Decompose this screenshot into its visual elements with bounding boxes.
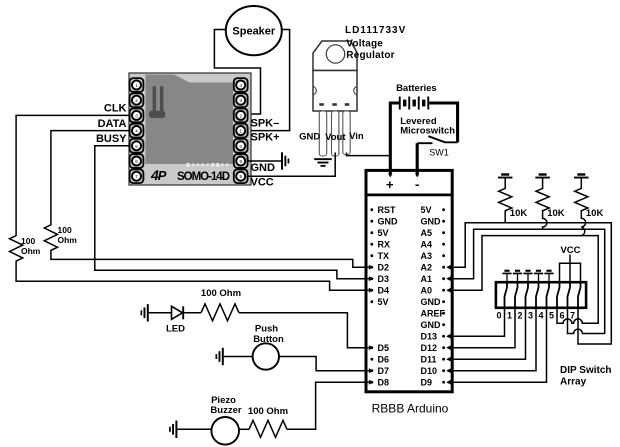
svg-text:Ohm: Ohm xyxy=(58,235,78,245)
wire BUSY net: module pin5 to Arduino D3 xyxy=(95,146,369,279)
svg-text:D8: D8 xyxy=(378,378,390,388)
module solder pads xyxy=(187,163,229,167)
svg-text:1: 1 xyxy=(507,311,512,321)
speaker SP1 xyxy=(226,6,282,55)
svg-text:Voltage: Voltage xyxy=(346,39,383,50)
voltage regulator U2 LD1117 tab xyxy=(313,41,357,71)
module pin 14 right xyxy=(234,78,248,92)
arrowhead at D5 xyxy=(369,345,374,350)
svg-text:BUSY: BUSY xyxy=(96,133,127,145)
regulator side notches xyxy=(313,87,357,95)
svg-text:D10: D10 xyxy=(421,366,438,376)
module pin 10 right xyxy=(234,139,248,153)
svg-text:3: 3 xyxy=(528,311,533,321)
wire battery right to switch xyxy=(429,103,457,142)
arrowhead at D10 xyxy=(446,368,451,373)
piezo buzzer LS1 xyxy=(211,417,239,445)
svg-text:RX: RX xyxy=(378,240,391,250)
module pin 6 left xyxy=(130,154,144,168)
module connector symbol xyxy=(149,86,165,118)
svg-text:A0: A0 xyxy=(421,286,433,296)
svg-text:SOMO-14D: SOMO-14D xyxy=(177,171,230,183)
svg-text:D4: D4 xyxy=(378,286,390,296)
wire D3 stub xyxy=(367,278,369,280)
resistor R6 100 Ohm xyxy=(201,304,239,321)
svg-text:-: - xyxy=(415,177,419,192)
wire resistor R7 to Arduino D8 xyxy=(287,382,369,429)
resistor R5 10K with hops over A2 and A1 nets xyxy=(575,179,588,236)
svg-text:D12: D12 xyxy=(421,343,438,353)
svg-text:100 Ohm: 100 Ohm xyxy=(201,288,241,299)
module pin 2 left xyxy=(130,93,144,107)
wire module GND to ground xyxy=(248,160,281,162)
DIP switch lever 1 xyxy=(515,281,518,308)
ground (above resistor R5) xyxy=(574,173,589,178)
module pin 13 right xyxy=(234,93,248,107)
svg-text:GND: GND xyxy=(299,132,320,143)
svg-text:4P: 4P xyxy=(150,167,167,183)
svg-text:GND: GND xyxy=(421,217,442,227)
regulator pin marks xyxy=(319,103,349,106)
arrowhead at D13 xyxy=(446,334,451,339)
Arduino U3 RBBB board outline xyxy=(366,170,452,391)
battery BT1 cells xyxy=(399,97,429,110)
wire VCC fork to DIP switches 5 6 7 xyxy=(560,255,581,282)
module pin 1 left xyxy=(130,78,144,92)
wire D2 stub xyxy=(367,266,369,268)
DIP switch lever 4 xyxy=(547,281,550,308)
ground (push button) xyxy=(216,348,224,365)
wire battery left to Arduino + xyxy=(390,103,400,176)
wire net D13 to DIP switch 0 xyxy=(454,308,505,336)
DIP switch lever 0 xyxy=(505,281,508,308)
regulator leg pin1 GND xyxy=(319,111,326,156)
wire net D12 to DIP switch 1 xyxy=(454,308,515,348)
wire resistor R6 to Arduino D5 xyxy=(239,313,369,348)
svg-text:5V: 5V xyxy=(421,205,432,215)
svg-text:A3: A3 xyxy=(421,251,433,261)
svg-text:Buzzer: Buzzer xyxy=(210,405,241,416)
module pin 4 left xyxy=(130,124,144,138)
svg-text:Regulator: Regulator xyxy=(346,50,394,61)
svg-text:D5: D5 xyxy=(378,343,390,353)
Arduino left pin dots xyxy=(370,208,373,383)
svg-text:2: 2 xyxy=(517,311,522,321)
svg-text:5V: 5V xyxy=(378,297,389,307)
wire switch to Arduino - xyxy=(416,143,419,175)
wire + stub into header xyxy=(389,170,392,174)
svg-text:AREF: AREF xyxy=(421,309,446,319)
svg-text:7: 7 xyxy=(570,311,575,321)
wire ground to push button xyxy=(224,356,253,358)
module 4D logo xyxy=(150,167,167,183)
svg-text:A2: A2 xyxy=(421,263,433,273)
svg-text:CLK: CLK xyxy=(104,103,127,115)
svg-text:Push: Push xyxy=(255,324,278,335)
arrowhead at A2 xyxy=(446,265,451,270)
module U1 SOMO-14D board xyxy=(129,73,251,185)
wire net D11 to DIP switch 2 xyxy=(454,308,526,359)
svg-text:Array: Array xyxy=(560,377,587,388)
module pin 8 right VCC xyxy=(234,169,248,183)
DIP switch lever 7 xyxy=(578,281,581,308)
svg-text:D3: D3 xyxy=(378,274,390,284)
svg-text:TX: TX xyxy=(378,251,390,261)
svg-text:VCC: VCC xyxy=(560,245,580,256)
svg-text:SPK–: SPK– xyxy=(251,118,280,130)
Arduino right pin labels xyxy=(421,205,446,388)
ground (above resistor R3) xyxy=(498,173,513,178)
ground (above DIP switch 1) xyxy=(517,274,519,282)
ground (regulator) xyxy=(314,158,332,167)
wire LED to resistor R6 xyxy=(183,312,201,314)
ground (above resistor R4) xyxy=(535,173,550,178)
wire D4 stub xyxy=(367,289,369,291)
ground (above DIP switch 4) xyxy=(548,274,550,282)
Arduino header divider xyxy=(366,193,452,196)
svg-text:GND: GND xyxy=(378,217,399,227)
svg-text:GND: GND xyxy=(421,297,442,307)
ground (above DIP switch 0) xyxy=(506,274,508,282)
svg-text:D2: D2 xyxy=(378,263,390,273)
svg-text:4: 4 xyxy=(538,311,543,321)
DIP switch array S1 body xyxy=(496,282,586,308)
wire - stub into header xyxy=(416,170,419,174)
svg-text:10K: 10K xyxy=(547,208,565,219)
wire Vout to module VCC xyxy=(248,153,336,177)
svg-text:VCC: VCC xyxy=(251,177,274,189)
wire push button to Arduino D7 xyxy=(279,357,369,371)
svg-text:A5: A5 xyxy=(421,228,433,238)
DIP switch lever 3 xyxy=(536,281,539,308)
ground (LED) xyxy=(141,304,149,321)
module pin 9 right GND xyxy=(234,154,248,168)
svg-text:100: 100 xyxy=(58,225,72,235)
wire Vin to battery junction xyxy=(347,153,390,156)
arrowhead at A0 xyxy=(446,288,451,293)
wire net A1 to DIP switch 6 xyxy=(454,229,605,333)
wire ground to LED xyxy=(149,312,172,314)
svg-text:Speaker: Speaker xyxy=(232,26,276,38)
wire net A0 to DIP switch 5 xyxy=(454,236,599,324)
module pin 11 right SPK+ xyxy=(234,124,248,138)
Arduino left pin labels xyxy=(378,205,399,388)
wire net A2 to DIP switch 7 xyxy=(454,223,612,344)
svg-text:RBBB Arduino: RBBB Arduino xyxy=(372,402,449,416)
resistor R4 10K with hop over A2 net xyxy=(536,179,549,230)
module pin 7 left xyxy=(130,169,144,183)
wire net D9 to DIP switch 4 xyxy=(454,308,547,382)
svg-text:Vout: Vout xyxy=(325,132,346,143)
svg-text:A4: A4 xyxy=(421,240,433,250)
svg-text:Ohm: Ohm xyxy=(21,246,41,256)
DIP switch lever 6 xyxy=(568,281,571,308)
svg-text:D7: D7 xyxy=(378,366,390,376)
push button S2 xyxy=(253,343,279,369)
svg-text:D6: D6 xyxy=(378,355,390,365)
svg-text:5V: 5V xyxy=(378,228,389,238)
svg-text:SW1: SW1 xyxy=(429,148,449,158)
svg-text:A1: A1 xyxy=(421,274,433,284)
svg-text:6: 6 xyxy=(559,311,564,321)
svg-text:100: 100 xyxy=(21,236,35,246)
arrowhead at D9 xyxy=(446,380,451,385)
svg-text:DATA: DATA xyxy=(98,118,127,130)
svg-text:SPK+: SPK+ xyxy=(251,132,280,144)
regulator mounting hole xyxy=(326,45,344,63)
module pin 12 right SPK- xyxy=(234,109,248,123)
module pin 5 left xyxy=(130,139,144,153)
wire piezo to resistor R7 xyxy=(238,428,249,430)
svg-text:D13: D13 xyxy=(421,332,438,342)
regulator body xyxy=(313,71,357,112)
wire net D10 to DIP switch 3 xyxy=(454,308,536,371)
svg-text:Vin: Vin xyxy=(349,131,364,142)
wire ground to piezo xyxy=(177,428,212,430)
svg-text:D9: D9 xyxy=(421,378,433,388)
svg-text:+: + xyxy=(386,177,394,192)
svg-text:10K: 10K xyxy=(510,208,528,219)
ground (above DIP switch 3) xyxy=(538,274,540,282)
svg-text:DIP Switch: DIP Switch xyxy=(560,365,612,376)
svg-text:100 Ohm: 100 Ohm xyxy=(248,406,288,417)
svg-text:GND: GND xyxy=(421,320,442,330)
ground (above DIP switch 2) xyxy=(527,274,529,282)
regulator leg pin3 Vin xyxy=(343,111,350,155)
Arduino right pin dots xyxy=(442,208,445,383)
svg-text:LD111733V: LD111733V xyxy=(345,25,406,36)
wire DATA net: module pin4 to resistor R1 to Arduino D2 xyxy=(44,131,369,268)
ground (piezo) xyxy=(169,421,177,438)
resistor R3 10K xyxy=(499,179,512,223)
arrowhead at D7 xyxy=(369,368,374,373)
svg-text:5: 5 xyxy=(549,311,554,321)
switch SW1 xyxy=(417,136,457,143)
wire speaker right terminal to SPK+ xyxy=(248,30,290,131)
svg-text:D11: D11 xyxy=(421,355,437,365)
regulator leg pin2 Vout xyxy=(332,111,339,156)
module pin 3 left xyxy=(130,109,144,123)
DIP switch lever 2 xyxy=(526,281,529,308)
module pin digits xyxy=(135,83,242,179)
svg-text:Batteries: Batteries xyxy=(396,83,437,94)
ground (module GND) xyxy=(281,152,289,169)
svg-text:Microswitch: Microswitch xyxy=(400,126,455,137)
arrowhead at D12 xyxy=(446,345,451,350)
svg-text:10K: 10K xyxy=(586,208,604,219)
arrowhead at A1 xyxy=(446,276,451,281)
wire CLK net: module pin3 to resistor R2 to Arduino D4 xyxy=(10,115,369,290)
svg-text:GND: GND xyxy=(251,162,276,174)
svg-text:LED: LED xyxy=(166,324,185,335)
svg-text:0: 0 xyxy=(496,311,501,321)
LED D1 xyxy=(172,306,184,319)
DIP switch lever 5 xyxy=(557,281,560,308)
resistor R7 100 Ohm xyxy=(249,420,287,437)
arrowhead at D8 xyxy=(369,380,374,385)
wire speaker left terminal to SPK- xyxy=(214,30,260,115)
svg-text:RST: RST xyxy=(378,205,397,215)
arrowhead at D11 xyxy=(446,357,451,362)
